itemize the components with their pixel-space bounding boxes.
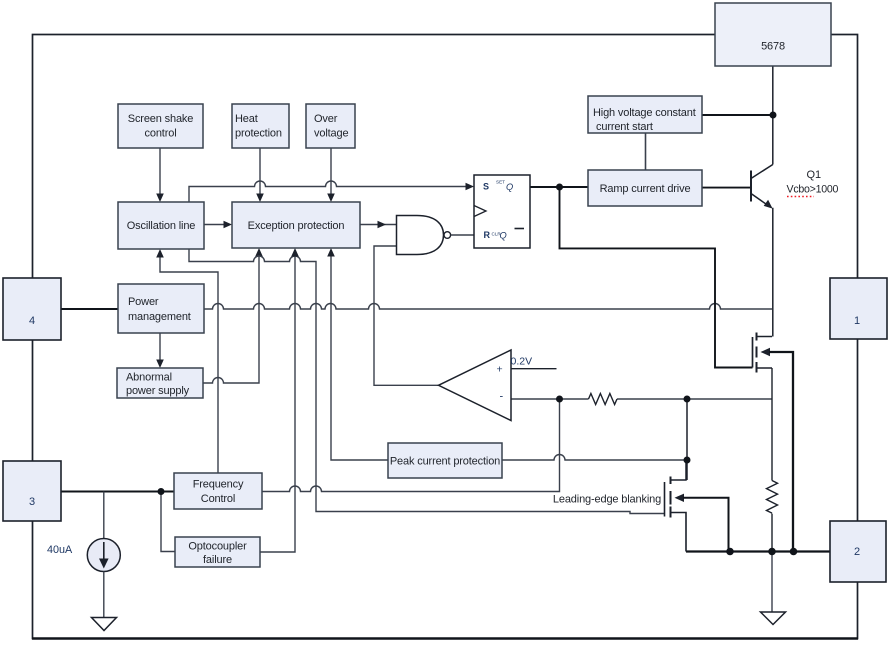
pin 4 (3, 278, 61, 340)
pin 1 (830, 278, 887, 339)
block Oscillation line (118, 202, 204, 249)
flip-flop U1 (SR latch) (474, 175, 530, 248)
wire M2 body terminal to ground rail (675, 494, 685, 502)
svg-text:Abnormal: Abnormal (126, 372, 172, 384)
block High voltage constant current start (588, 96, 702, 133)
wire sense column: source down through vertical resistor to ground rail (771, 368, 773, 481)
wire Peak current protection left to Exception protection (331, 255, 388, 460)
outer frame bottom edge (thick) (32, 637, 858, 639)
wire drain node down from minus node (686, 399, 688, 460)
wire Frequency Control output to comparator minus node (262, 399, 560, 492)
wire High voltage box to Ramp current drive connector (645, 133, 647, 170)
svg-text:Optocoupler: Optocoupler (188, 541, 247, 553)
wire M2 drain up to peak node (671, 460, 687, 480)
node ground rail junction B (768, 548, 776, 556)
wire flip-flop Q output to Ramp current drive (530, 186, 588, 188)
node ground rail junction A (726, 548, 734, 556)
svg-text:0.2V: 0.2V (511, 356, 533, 368)
wire comparator minus input (511, 398, 589, 400)
svg-text:Exception protection: Exception protection (248, 220, 345, 232)
svg-text:failure: failure (203, 554, 232, 566)
wire High voltage constant current start output to collector node (702, 114, 773, 116)
block Ramp current drive (588, 170, 702, 206)
svg-text:40uA: 40uA (47, 544, 73, 556)
svg-text:Leading-edge blanking: Leading-edge blanking (553, 494, 661, 506)
wire Peak current protection output to drain node (502, 455, 687, 460)
svg-text:power supply: power supply (126, 385, 190, 397)
svg-text:3: 3 (29, 496, 35, 508)
svg-text:Q1: Q1 (807, 169, 822, 181)
wire Q node to upper MOSFET gate (560, 187, 753, 368)
wire current source to ground (103, 572, 105, 618)
svg-text:5678: 5678 (761, 41, 785, 53)
block Heat protection (232, 104, 289, 148)
svg-text:Heat: Heat (235, 113, 258, 125)
svg-text:Control: Control (201, 493, 235, 505)
pin 3 (3, 461, 61, 521)
wire node S-line: Oscillation line top to flip-flop S input (189, 181, 467, 202)
ground symbol near pin 2 (761, 612, 786, 625)
wire minus node to sense node (617, 398, 772, 400)
node pin3 junction (158, 488, 165, 495)
resistor R-vertical (sense column to ground) (767, 481, 778, 514)
wire NAND output to flip-flop R input (451, 234, 474, 236)
wire Screen shake control to Oscillation line (159, 148, 161, 196)
svg-text:-: - (500, 391, 504, 403)
wire Q1 emitter down to upper MOSFET drain (772, 208, 774, 337)
block Frequency Control (174, 473, 262, 509)
svg-text:Frequency: Frequency (193, 479, 244, 491)
block Abnormal power supply (117, 368, 203, 398)
svg-text:4: 4 (29, 315, 35, 327)
node comparator minus junction (556, 396, 563, 403)
wire Power management to Abnormal power supply (159, 333, 161, 361)
svg-text:voltage: voltage (314, 128, 348, 140)
node Q-output junction (556, 184, 563, 191)
node sense junction (684, 396, 691, 403)
wire node to current source (103, 492, 105, 539)
block Screen shake control (118, 104, 203, 148)
svg-text:+: + (497, 364, 503, 376)
svg-text:Q: Q (500, 231, 507, 241)
NAND gate U2 (397, 216, 444, 255)
svg-text:2: 2 (854, 546, 860, 558)
resistor R-sense horizontal (between comparator minus node and drain node) (589, 394, 618, 405)
wire Optocoupler failure output up to Exception protection (260, 255, 295, 552)
block Optocoupler failure (175, 537, 260, 567)
wire node to Optocoupler failure input (161, 492, 175, 552)
wire Ramp current drive to Q1 base (702, 187, 751, 189)
node ground rail junction C (790, 548, 798, 556)
wire Oscillation line bottom to leading-edge blanking gate bus (189, 249, 665, 514)
wire pin4 to Power management (61, 308, 118, 310)
svg-text:control: control (145, 128, 177, 140)
block Exception protection (232, 202, 360, 248)
svg-text:protection: protection (235, 128, 282, 140)
svg-text:1: 1 (854, 315, 860, 327)
svg-text:Screen shake: Screen shake (128, 113, 193, 125)
pin 2 (830, 521, 886, 582)
svg-text:SET: SET (496, 180, 505, 185)
svg-text:Vcbo>1000: Vcbo>1000 (787, 184, 839, 196)
wire Exception protection to NAND gate input (360, 224, 397, 226)
svg-text:S: S (483, 182, 489, 192)
svg-text:Q: Q (506, 182, 513, 192)
wire ground drop below rail (771, 552, 773, 612)
svg-text:R: R (484, 230, 491, 240)
wire pin3 to Frequency Control (61, 490, 174, 492)
svg-text:High voltage constant: High voltage constant (593, 107, 696, 119)
node collector junction (770, 112, 777, 119)
svg-text:Over: Over (314, 113, 338, 125)
transistor Q1 (NPN) (750, 171, 752, 202)
wire 5678 box down through collector node to Q1 (772, 66, 774, 165)
wire ground rail to pin 2 (686, 550, 830, 552)
transistor M2 leading-edge blanking MOSFET (664, 482, 666, 517)
svg-text:Peak current protection: Peak current protection (390, 456, 500, 468)
block 5678 (top package) (715, 3, 831, 66)
wire Over voltage to Exception protection (330, 148, 332, 196)
svg-text:Oscillation line: Oscillation line (127, 220, 196, 232)
wire M2 source to ground rail (671, 513, 687, 552)
node peak/drain junction (684, 457, 691, 464)
svg-text:Power: Power (128, 296, 159, 308)
wire M1 body terminal to ground rail (769, 352, 793, 552)
wire Frequency Control top to Oscillation line bottom (160, 256, 218, 473)
svg-text:management: management (128, 311, 191, 323)
block Peak current protection (388, 443, 502, 478)
block Power management (118, 284, 204, 333)
wire comparator output to NAND gate input (374, 246, 439, 385)
transistor M1 upper MOSFET (752, 337, 754, 368)
op-amp comparator U3 (points left) (439, 350, 512, 421)
wire 0.2V reference stub to comparator plus input (511, 368, 557, 370)
ground symbol below current source (92, 618, 117, 631)
wire Power management output bus (y=309) with hop-over bumps (204, 304, 772, 310)
wire Heat protection to Exception protection (259, 148, 261, 196)
current source I1 40uA (87, 539, 120, 572)
wire Oscillation line to Exception protection (204, 224, 226, 226)
block Over voltage (306, 104, 355, 148)
svg-text:current start: current start (596, 121, 653, 133)
wire Abnormal power supply to Exception protection (up arrow) (203, 255, 259, 383)
svg-text:Ramp current drive: Ramp current drive (600, 183, 691, 195)
